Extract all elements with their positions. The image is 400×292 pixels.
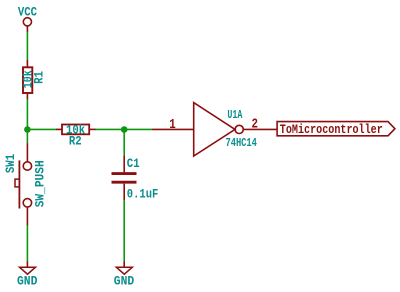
- inverter U1A 74HC14: [152, 103, 276, 156]
- svg-text:R2: R2: [69, 133, 82, 148]
- svg-text:1: 1: [169, 118, 176, 133]
- svg-text:GND: GND: [114, 274, 135, 289]
- svg-text:0.1uF: 0.1uF: [127, 187, 159, 202]
- svg-text:C1: C1: [127, 156, 140, 171]
- resistor R1: [23, 60, 32, 99]
- svg-text:GND: GND: [17, 274, 38, 289]
- ground left: [20, 261, 36, 274]
- wire C1 to GND: [123, 200, 125, 262]
- wire node A to R2: [27, 128, 56, 130]
- wire node B to C1: [123, 129, 125, 156]
- svg-text:SW1: SW1: [3, 154, 18, 173]
- svg-text:2: 2: [251, 117, 258, 132]
- junction node B: [121, 126, 128, 133]
- svg-text:U1A: U1A: [227, 108, 243, 122]
- wire VCC to R1: [26, 32, 28, 61]
- wire R2 to inverter input: [96, 128, 153, 130]
- junction node A: [24, 126, 31, 133]
- wire node A to SW1: [26, 129, 28, 143]
- svg-text:ToMicrocontroller: ToMicrocontroller: [280, 122, 383, 137]
- switch SW1: [15, 143, 32, 225]
- svg-text:74HC14: 74HC14: [225, 136, 257, 150]
- capacitor C1: [112, 156, 137, 201]
- resistor R2: [56, 125, 96, 135]
- global label ToMicrocontroller: [277, 122, 395, 137]
- svg-text:SW_PUSH: SW_PUSH: [33, 160, 48, 207]
- wire SW1 to GND: [26, 225, 28, 262]
- svg-text:VCC: VCC: [18, 6, 38, 20]
- ground center: [116, 261, 132, 274]
- power flag VCC: [23, 18, 31, 32]
- svg-text:R1: R1: [31, 71, 46, 84]
- wire R1 to node A: [26, 99, 28, 129]
